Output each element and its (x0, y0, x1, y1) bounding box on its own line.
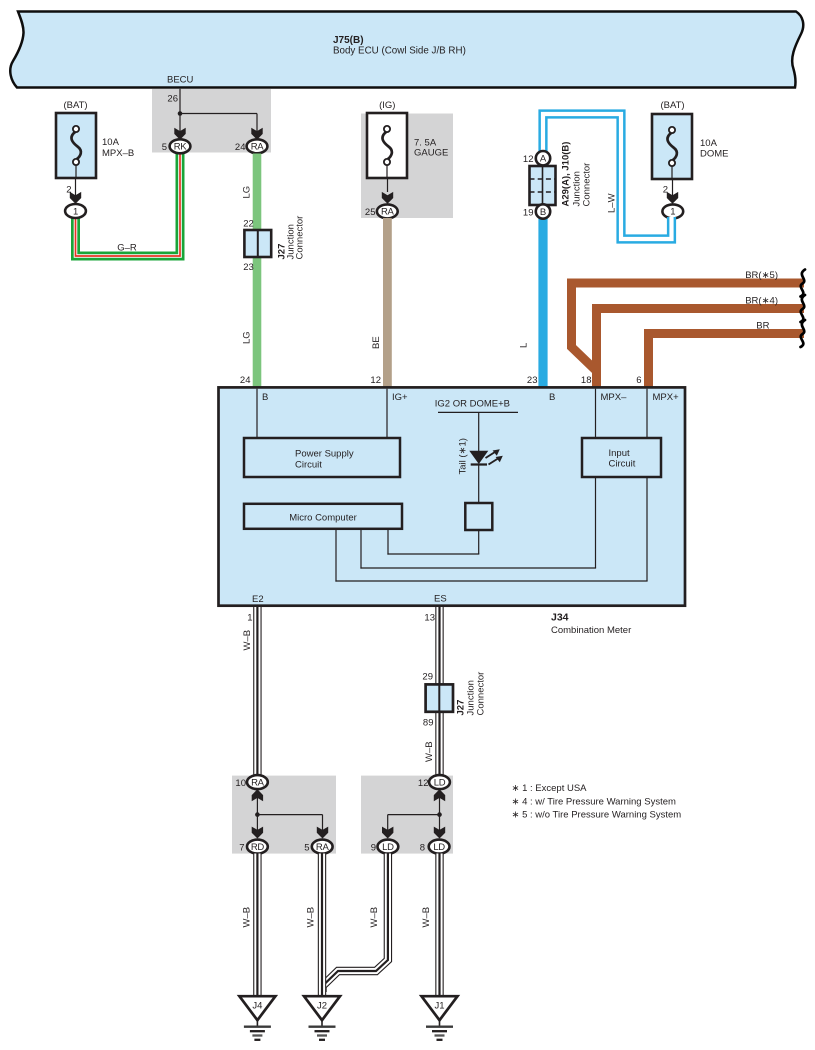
svg-text:23: 23 (243, 262, 254, 273)
svg-text:24: 24 (235, 142, 246, 153)
svg-text:RA: RA (251, 142, 265, 153)
svg-text:BR(∗5): BR(∗5) (745, 270, 778, 281)
svg-text:BR(∗4): BR(∗4) (745, 296, 778, 307)
svg-text:GAUGE: GAUGE (414, 148, 448, 159)
svg-text:Connector: Connector (295, 216, 306, 260)
svg-text:LD: LD (434, 777, 446, 788)
svg-text:(BAT): (BAT) (660, 100, 684, 111)
svg-text:BE: BE (371, 336, 382, 349)
svg-text:22: 22 (243, 219, 254, 230)
svg-text:A29(A), J10(B): A29(A), J10(B) (561, 142, 572, 207)
svg-text:IG2 OR DOME+B: IG2 OR DOME+B (435, 399, 510, 410)
svg-text:(BAT): (BAT) (63, 100, 87, 111)
svg-text:18: 18 (581, 375, 592, 386)
svg-text:RA: RA (381, 207, 395, 218)
svg-text:1: 1 (73, 206, 78, 217)
svg-text:L: L (519, 343, 530, 348)
svg-text:RA: RA (251, 777, 265, 788)
svg-text:8: 8 (420, 843, 425, 854)
svg-text:24: 24 (240, 375, 251, 386)
svg-text:W–B: W–B (424, 741, 435, 762)
svg-text:9: 9 (371, 843, 376, 854)
svg-text:B: B (540, 207, 546, 218)
svg-text:89: 89 (423, 718, 434, 729)
svg-text:∗ 1 : Except USA: ∗ 1 : Except USA (512, 783, 588, 794)
svg-text:IG+: IG+ (392, 392, 408, 403)
svg-text:G–R: G–R (117, 243, 137, 254)
svg-text:BECU: BECU (167, 75, 194, 86)
svg-text:∗ 5 : w/o Tire Pressure Warnin: ∗ 5 : w/o Tire Pressure Warning System (512, 810, 682, 821)
svg-text:RD: RD (251, 842, 265, 853)
svg-text:RA: RA (316, 842, 330, 853)
svg-text:RK: RK (174, 142, 188, 153)
svg-text:LD: LD (433, 842, 445, 853)
svg-text:B: B (262, 392, 268, 403)
svg-text:BR: BR (756, 321, 769, 332)
svg-text:LD: LD (382, 842, 394, 853)
svg-text:Power Supply: Power Supply (295, 449, 354, 460)
svg-text:J2: J2 (317, 1001, 327, 1012)
svg-text:J34: J34 (551, 612, 569, 624)
svg-text:Connector: Connector (582, 163, 593, 207)
svg-text:DOME: DOME (700, 149, 729, 160)
svg-text:W–B: W–B (306, 907, 317, 928)
svg-text:Micro Computer: Micro Computer (289, 513, 357, 524)
svg-text:W–B: W–B (369, 907, 380, 928)
svg-text:23: 23 (527, 375, 538, 386)
svg-text:ES: ES (434, 594, 447, 605)
svg-text:∗ 4 : w/ Tire Pressure Warning: ∗ 4 : w/ Tire Pressure Warning System (512, 796, 676, 807)
svg-text:Circuit: Circuit (295, 460, 322, 471)
svg-text:1: 1 (247, 613, 252, 624)
svg-text:LG: LG (242, 331, 253, 344)
svg-text:6: 6 (636, 375, 641, 386)
svg-text:J4: J4 (252, 1001, 262, 1012)
svg-text:B: B (549, 392, 555, 403)
svg-text:J75(B): J75(B) (333, 35, 364, 46)
svg-text:10A: 10A (102, 137, 120, 148)
svg-text:W–B: W–B (242, 907, 253, 928)
svg-text:Body ECU (Cowl Side J/B RH): Body ECU (Cowl Side J/B RH) (333, 46, 466, 57)
svg-text:W–B: W–B (242, 630, 253, 651)
svg-text:(IG): (IG) (379, 100, 395, 111)
svg-text:10: 10 (235, 778, 246, 789)
svg-text:1: 1 (670, 207, 675, 218)
svg-text:MPX–B: MPX–B (102, 148, 134, 159)
svg-text:7: 7 (239, 843, 244, 854)
svg-text:5: 5 (304, 843, 309, 854)
svg-text:LG: LG (242, 186, 253, 199)
svg-text:29: 29 (422, 672, 433, 683)
svg-text:Tail (∗1): Tail (∗1) (458, 438, 469, 474)
svg-text:19: 19 (523, 208, 534, 219)
svg-text:26: 26 (167, 94, 178, 105)
svg-text:10A: 10A (700, 138, 718, 149)
svg-text:12: 12 (523, 154, 534, 165)
svg-text:12: 12 (418, 778, 429, 789)
svg-text:W–B: W–B (421, 907, 432, 928)
svg-text:Circuit: Circuit (609, 459, 636, 470)
svg-text:5: 5 (162, 142, 167, 153)
svg-text:Connector: Connector (476, 672, 487, 716)
svg-text:Combination Meter: Combination Meter (551, 625, 631, 636)
svg-text:J1: J1 (434, 1001, 444, 1012)
svg-text:MPX–: MPX– (601, 392, 628, 403)
svg-text:12: 12 (370, 375, 381, 386)
svg-text:25: 25 (365, 207, 376, 218)
svg-text:A: A (540, 154, 547, 165)
svg-text:L–W: L–W (607, 193, 618, 213)
svg-text:Input: Input (609, 448, 630, 459)
svg-text:MPX+: MPX+ (653, 392, 680, 403)
svg-text:E2: E2 (252, 594, 264, 605)
svg-text:13: 13 (424, 613, 435, 624)
